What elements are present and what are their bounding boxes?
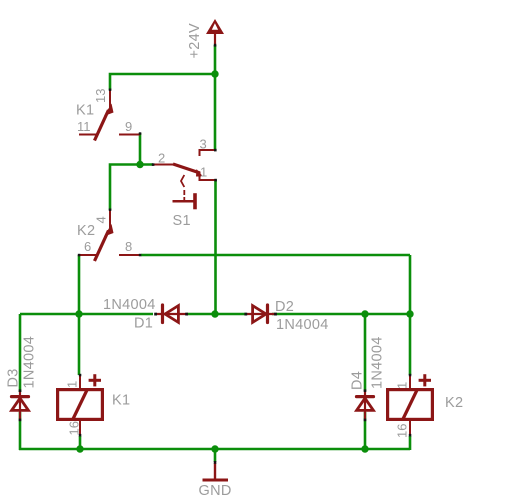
- diode D4: [350, 336, 386, 419]
- svg-text:1N4004: 1N4004: [22, 336, 38, 389]
- diode D2: [246, 299, 329, 333]
- svg-text:+24V: +24V: [187, 23, 203, 58]
- svg-text:2: 2: [158, 151, 165, 166]
- wire: [19, 448, 410, 451]
- node junction pin9/pin2: [136, 161, 143, 168]
- wire: [141, 254, 410, 257]
- node junction right rail: [406, 310, 413, 317]
- svg-text:4: 4: [94, 216, 109, 223]
- wire: [214, 180, 217, 314]
- svg-text:3: 3: [200, 137, 207, 152]
- diode D1: [103, 297, 187, 332]
- svg-text:S1: S1: [173, 213, 191, 229]
- relay coil K2: [388, 374, 464, 438]
- diode D3: [6, 336, 38, 419]
- wire: [364, 412, 367, 449]
- svg-text:1N4004: 1N4004: [370, 336, 386, 389]
- svg-text:1N4004: 1N4004: [103, 297, 156, 313]
- svg-text:D3: D3: [6, 368, 22, 387]
- ground: [199, 463, 232, 499]
- svg-text:GND: GND: [199, 483, 232, 499]
- wire: [20, 313, 153, 316]
- supply +24V symbol: [187, 19, 224, 59]
- svg-text:K1: K1: [76, 103, 94, 119]
- wire: [214, 449, 217, 462]
- svg-text:9: 9: [125, 119, 132, 134]
- svg-text:K1: K1: [112, 393, 130, 409]
- node junction +24V: [211, 70, 218, 77]
- wire: [110, 165, 153, 211]
- wire: [19, 412, 22, 450]
- svg-text:6: 6: [84, 239, 91, 254]
- svg-text:8: 8: [125, 239, 132, 254]
- svg-text:D2: D2: [275, 299, 294, 315]
- wire: [364, 314, 367, 391]
- node junction left rail: [75, 310, 82, 317]
- node junction D4 bottom: [361, 445, 368, 452]
- pin connection ticks: [19, 44, 412, 464]
- svg-text:1: 1: [395, 382, 410, 389]
- node junction D4 top: [361, 310, 368, 317]
- wire: [272, 313, 410, 316]
- wire: [19, 314, 22, 392]
- svg-text:16: 16: [395, 424, 410, 438]
- wire: [78, 255, 81, 375]
- node junction mid rail: [211, 310, 218, 317]
- svg-text:1: 1: [65, 381, 80, 388]
- svg-text:16: 16: [67, 421, 82, 435]
- svg-text:D4: D4: [350, 371, 366, 390]
- svg-text:D1: D1: [134, 316, 153, 332]
- wire: [139, 133, 142, 164]
- wire: [409, 436, 412, 450]
- relay contact K1: [76, 89, 140, 141]
- svg-text:K2: K2: [445, 395, 463, 411]
- svg-text:1N4004: 1N4004: [276, 317, 329, 333]
- node junction K1 coil gnd: [76, 445, 83, 452]
- wire: [110, 74, 215, 90]
- svg-text:1: 1: [200, 165, 207, 180]
- wire: [214, 45, 217, 151]
- relay coil K1: [58, 374, 131, 435]
- wire: [79, 436, 82, 449]
- svg-text:11: 11: [77, 119, 91, 134]
- svg-text:K2: K2: [77, 223, 95, 239]
- wire: [187, 313, 247, 316]
- wire: [409, 255, 412, 375]
- switch S1: [153, 137, 216, 230]
- node junction GND: [211, 445, 218, 452]
- svg-text:13: 13: [93, 89, 108, 103]
- relay contact K2: [77, 210, 140, 261]
